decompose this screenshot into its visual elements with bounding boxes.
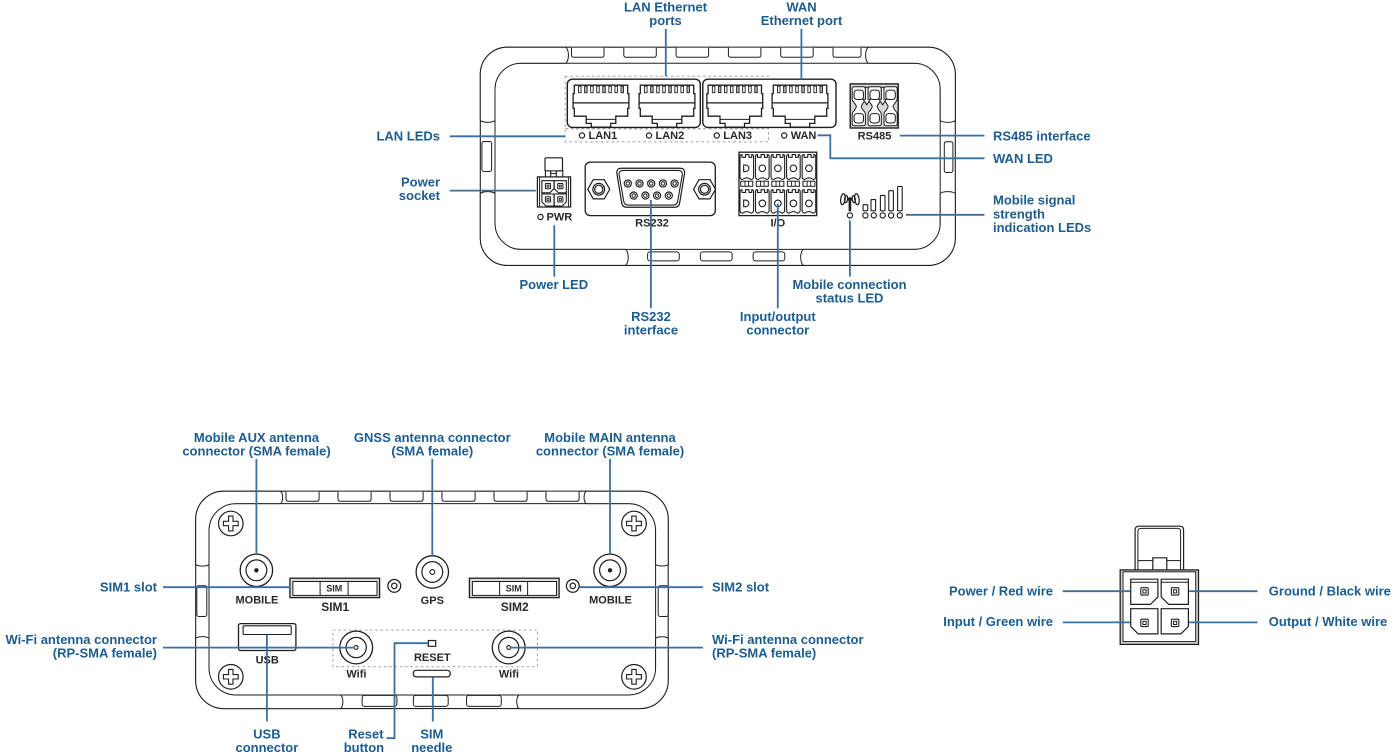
svg-text:connector (SMA female): connector (SMA female) [536, 444, 684, 459]
svg-text:Wifi: Wifi [346, 668, 366, 680]
SIM2 eject hole [566, 580, 579, 593]
dashed outline around wifi connectors and reset [333, 630, 538, 667]
leader line GNSS antenna [431, 459, 433, 556]
svg-text:(SMA female): (SMA female) [391, 444, 473, 459]
svg-text:indication LEDs: indication LEDs [993, 220, 1091, 235]
leader line WAN LED [818, 135, 985, 158]
svg-text:status LED: status LED [816, 291, 884, 306]
screw top-right [622, 511, 647, 536]
svg-text:Wifi: Wifi [499, 668, 519, 680]
svg-text:Ethernet port: Ethernet port [761, 13, 843, 28]
top device corner bumper top-left [480, 47, 568, 122]
svg-text:SIM2: SIM2 [501, 600, 529, 614]
power plug latch neck [1153, 558, 1167, 569]
bottom device corner bumper bottom-right [517, 637, 669, 709]
svg-text:connector (SMA female): connector (SMA female) [182, 444, 330, 459]
svg-text:RS232: RS232 [635, 217, 669, 229]
SMA connector MOBILE aux [240, 554, 272, 586]
svg-text:interface: interface [624, 323, 678, 338]
top device corner bumper bottom-left [480, 192, 628, 266]
svg-text:connector: connector [235, 740, 298, 752]
LED indicator LAN2 [646, 133, 651, 138]
svg-text:SIM1: SIM1 [321, 600, 349, 614]
svg-text:MOBILE: MOBILE [236, 594, 279, 606]
leader line WAN Ethernet port [800, 29, 802, 80]
leader line Mobile AUX antenna [255, 459, 257, 554]
svg-text:PWR: PWR [547, 211, 573, 223]
leader line SIM2 slot [580, 586, 703, 588]
svg-text:Power LED: Power LED [519, 277, 588, 292]
svg-text:Ground / Black wire: Ground / Black wire [1269, 583, 1391, 598]
svg-text:Power / Red wire: Power / Red wire [949, 583, 1053, 598]
input/output terminal block [739, 152, 817, 215]
leader line Mobile MAIN antenna [609, 459, 611, 554]
svg-text:MOBILE: MOBILE [589, 594, 632, 606]
power socket 4-pin [545, 158, 563, 171]
dashed outline around LAN ports [565, 76, 768, 129]
leader line Power LED [553, 225, 555, 276]
svg-text:LAN LEDs: LAN LEDs [376, 129, 440, 144]
plug cavity pin1 power [1131, 579, 1158, 604]
leader line Mobile connection status LED [849, 220, 851, 276]
signal strength LED circles [847, 213, 852, 218]
SIM1 eject hole [388, 580, 401, 593]
leader line RS485 interface [900, 135, 985, 137]
svg-text:SIM: SIM [506, 583, 522, 593]
leader line Wi-Fi antenna left [163, 647, 355, 649]
bottom device left side tab [197, 586, 207, 617]
reset button [428, 641, 435, 647]
leader line Input / Green wire [1063, 621, 1130, 623]
bottom device corner bumper bottom-left [196, 637, 343, 709]
USB connector [239, 624, 296, 651]
RS232 DB9 connector [585, 162, 715, 216]
svg-text:button: button [344, 740, 384, 752]
svg-text:Input / Green wire: Input / Green wire [943, 614, 1053, 629]
mobile signal strength antenna icon [840, 193, 860, 211]
top device corner bumper bottom-right [801, 192, 956, 266]
top device left side tab [482, 142, 492, 172]
LED indicator WAN [782, 133, 787, 138]
plug cavity pin3 input [1131, 609, 1158, 634]
top device bottom rail vent slots [648, 252, 785, 261]
svg-text:GPS: GPS [421, 595, 444, 607]
svg-text:LAN2: LAN2 [656, 130, 685, 142]
svg-text:SIM1 slot: SIM1 slot [100, 580, 158, 595]
ethernet port group housing LAN3 WAN [703, 79, 836, 127]
screw top-left [219, 511, 244, 536]
leader line LAN Ethernet ports [665, 29, 667, 76]
leader line RS232 interface [650, 200, 652, 308]
svg-text:RESET: RESET [414, 652, 451, 664]
signal strength bars [863, 205, 868, 211]
bottom device: router front panel case outline [196, 491, 669, 708]
svg-text:WAN LED: WAN LED [993, 151, 1053, 166]
screw bottom-left [219, 665, 244, 690]
leader line Power socket [450, 190, 536, 192]
leader line Reset button [387, 643, 429, 738]
top device right side tab [944, 142, 953, 173]
RJ45 port LAN3 [707, 85, 763, 127]
RP-SMA connector Wifi left [340, 631, 373, 664]
svg-text:(RP-SMA female): (RP-SMA female) [53, 646, 157, 661]
leader line Wi-Fi antenna right [510, 647, 703, 649]
plug cavity pin2 ground [1161, 579, 1188, 604]
LED indicator PWR [538, 214, 543, 219]
SIM1 tray [290, 578, 380, 597]
leader line Power / Red wire [1063, 590, 1130, 592]
RJ45 port WAN [772, 85, 828, 127]
bottom device corner bumper top-right [584, 491, 668, 566]
leader line SIM needle [432, 677, 434, 721]
SMA connector MOBILE main [594, 554, 626, 586]
bottom device right side tab [658, 586, 668, 617]
svg-text:SIM: SIM [326, 583, 342, 593]
top device corner bumper top-right [866, 47, 956, 122]
leader line SIM1 slot [163, 586, 290, 588]
leader line Input/output connector [777, 204, 779, 309]
top device top rail vent slots [572, 48, 862, 58]
screw bottom-right [622, 665, 647, 690]
svg-text:LAN1: LAN1 [589, 130, 618, 142]
leader line USB connector [266, 635, 268, 722]
ethernet port group housing LAN1 LAN2 [567, 79, 700, 127]
svg-text:LAN3: LAN3 [723, 130, 752, 142]
SMA connector GPS [416, 556, 448, 588]
LED indicator LAN1 [579, 133, 584, 138]
plug cavity pin4 output [1161, 609, 1188, 634]
SIM needle [413, 670, 450, 677]
svg-text:(RP-SMA female): (RP-SMA female) [712, 646, 816, 661]
svg-text:needle: needle [411, 740, 452, 752]
SIM2 tray [469, 578, 559, 597]
power plug latch tab [1135, 526, 1184, 569]
RS485 terminal block [850, 84, 898, 128]
bottom device top rail vent slots [286, 492, 579, 502]
leader line LAN LEDs [450, 135, 565, 137]
LED indicator LAN3 [714, 133, 719, 138]
svg-text:WAN: WAN [791, 130, 817, 142]
power plug body [1120, 570, 1198, 645]
svg-text:Output / White wire: Output / White wire [1269, 614, 1387, 629]
RJ45 port LAN1 [573, 85, 629, 127]
svg-text:RS485: RS485 [858, 130, 892, 142]
RP-SMA connector Wifi right [492, 631, 525, 664]
svg-text:RS485 interface: RS485 interface [993, 128, 1091, 143]
leader line Mobile signal strength LEDs [906, 214, 985, 216]
svg-text:ports: ports [649, 13, 682, 28]
top device: router rear panel case outline [480, 47, 955, 265]
svg-text:socket: socket [399, 188, 441, 203]
dashed outline around LAN LED labels [565, 129, 768, 142]
leader line Output / White wire [1189, 621, 1258, 623]
RJ45 port LAN2 [639, 85, 695, 127]
svg-text:connector: connector [746, 323, 809, 338]
svg-text:SIM2 slot: SIM2 slot [712, 580, 770, 595]
bottom device bottom rail vent slots [362, 695, 501, 706]
bottom device corner bumper top-left [196, 491, 283, 566]
leader line Ground / Black wire [1189, 590, 1258, 592]
